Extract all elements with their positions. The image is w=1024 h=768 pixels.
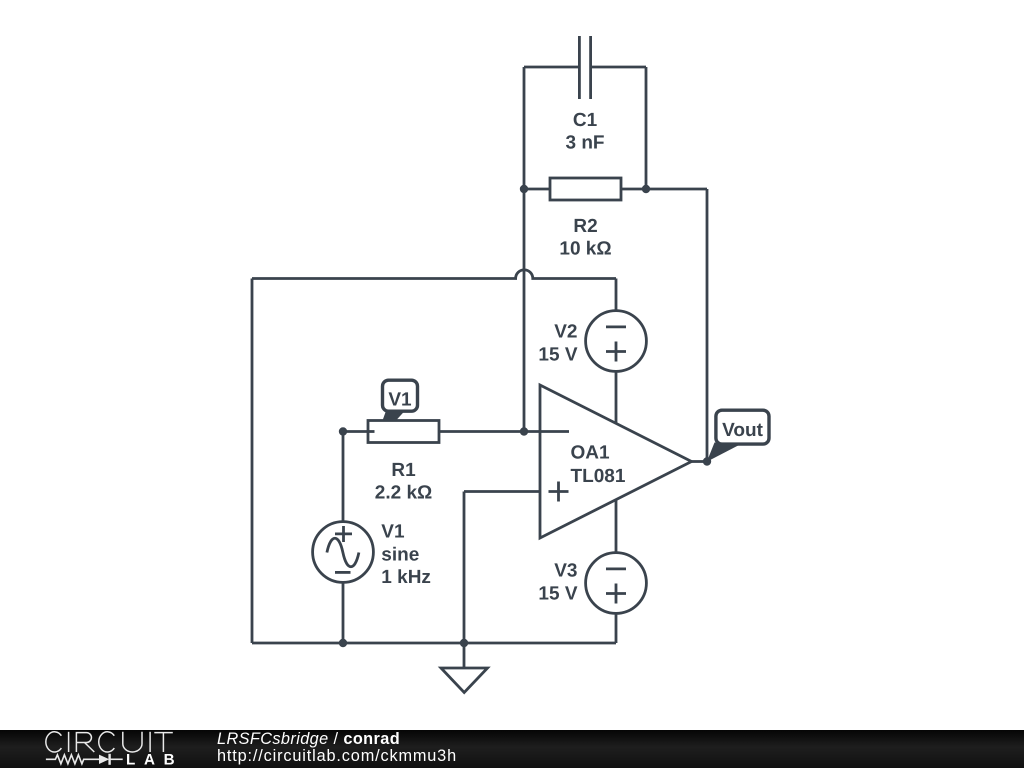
- svg-text:sine: sine: [381, 544, 419, 565]
- wire op-amp V+ to V3: [615, 500, 618, 553]
- capacitor C1 plates: [579, 36, 590, 99]
- logo letter C: [46, 732, 62, 752]
- svg-text:OA1: OA1: [571, 442, 611, 463]
- svg-text:V1: V1: [388, 389, 412, 410]
- wire right vertical down to output node: [706, 189, 709, 462]
- flag label Vout bubble: [707, 410, 769, 462]
- logo letter R: [76, 733, 94, 752]
- CircuitLab logo: [40, 729, 190, 768]
- ground symbol triangle: [441, 668, 488, 693]
- resistor R2 body: [550, 178, 621, 200]
- logo letter I: [149, 732, 151, 752]
- wire feedback vertical node A to inverting junction: [523, 189, 526, 432]
- label V3 value: [538, 561, 577, 605]
- V3 plus sign: [606, 584, 626, 604]
- node B feedback right: [642, 185, 650, 193]
- node V1 bottom: [339, 639, 347, 647]
- wire R1 left lead stub inside body: [368, 430, 375, 433]
- node ground junction: [460, 639, 468, 647]
- wire top-left horizontal with hop over feedback wire: [252, 270, 616, 279]
- svg-text:Vout: Vout: [722, 420, 763, 441]
- label V1 value: [381, 521, 431, 588]
- logo letter I: [68, 732, 70, 752]
- voltage source V2 circle: [586, 311, 647, 372]
- logo letter T: [154, 733, 173, 752]
- svg-text:R1: R1: [391, 460, 416, 481]
- resistor R1 body: [368, 421, 439, 443]
- voltage source V3 circle: [586, 553, 647, 614]
- label R1 value: [375, 460, 433, 504]
- V1 minus sign: [335, 571, 351, 574]
- svg-text:V3: V3: [554, 561, 577, 582]
- wire left vertical: [251, 279, 254, 644]
- wire non-inverting input horizontal: [464, 490, 540, 493]
- footer bar: [0, 730, 1024, 768]
- wire non-inverting input vertical to ground rail: [463, 492, 466, 644]
- node A feedback left: [520, 185, 528, 193]
- wire C1 right vertical down to node B: [645, 67, 648, 189]
- svg-text:V1: V1: [381, 521, 405, 542]
- wire R2 left stub: [524, 188, 550, 191]
- logo letter C: [99, 732, 115, 752]
- label R2 value: [559, 216, 611, 260]
- footer project title: [217, 731, 457, 764]
- svg-text:1 kHz: 1 kHz: [381, 567, 431, 588]
- svg-text:2.2 kΩ: 2.2 kΩ: [375, 483, 433, 504]
- wire V2 bottom stub to op-amp top: [615, 371, 618, 423]
- label C1 value: [565, 110, 604, 154]
- V1 sine wave: [327, 538, 359, 567]
- node R1 left: [339, 427, 347, 435]
- logo letter U: [123, 732, 142, 752]
- svg-text:15 V: 15 V: [538, 344, 577, 365]
- wire node B to top-right corner: [646, 188, 707, 191]
- V2 minus sign: [606, 325, 626, 328]
- wire bottom horizontal: [252, 642, 616, 645]
- wire V1 bottom lead: [342, 582, 345, 643]
- wire R1 right lead to inverting input: [439, 430, 569, 433]
- logo resistor zigzag: [46, 755, 123, 764]
- wire V1 top lead: [342, 432, 345, 522]
- V3 minus sign: [606, 568, 626, 571]
- op-amp OA1 triangle: [540, 385, 692, 538]
- wire R1 left lead: [343, 430, 374, 433]
- svg-text:LAB: LAB: [126, 752, 183, 768]
- wire op-amp output stub: [692, 460, 708, 463]
- svg-text:15 V: 15 V: [538, 584, 577, 605]
- svg-text:3 nF: 3 nF: [565, 132, 604, 153]
- V1 plus sign: [335, 526, 352, 542]
- wire R2 right stub: [621, 188, 646, 191]
- wire V3 bottom stub: [615, 613, 618, 643]
- wire C1 left lead: [524, 66, 579, 69]
- svg-text:10 kΩ: 10 kΩ: [559, 239, 611, 260]
- logo diode: [99, 755, 109, 764]
- svg-text:TL081: TL081: [571, 466, 626, 487]
- op-amp plus input symbol: [549, 482, 569, 502]
- svg-text:C1: C1: [573, 110, 598, 131]
- svg-text:R2: R2: [573, 216, 597, 237]
- node junction inverting input: [520, 427, 528, 435]
- flag label V1 bubble: [383, 380, 418, 420]
- label OA1 value: [571, 442, 626, 487]
- V2 plus sign: [606, 342, 626, 362]
- ground stub: [463, 643, 466, 668]
- voltage source V1 circle: [313, 522, 374, 583]
- wire C1 right lead: [591, 66, 646, 69]
- wire C1 left vertical down to node A: [523, 67, 526, 189]
- wire V2 top stub: [615, 279, 618, 311]
- svg-text:V2: V2: [554, 321, 577, 342]
- label V2 value: [538, 321, 577, 365]
- node output Vout: [703, 457, 711, 465]
